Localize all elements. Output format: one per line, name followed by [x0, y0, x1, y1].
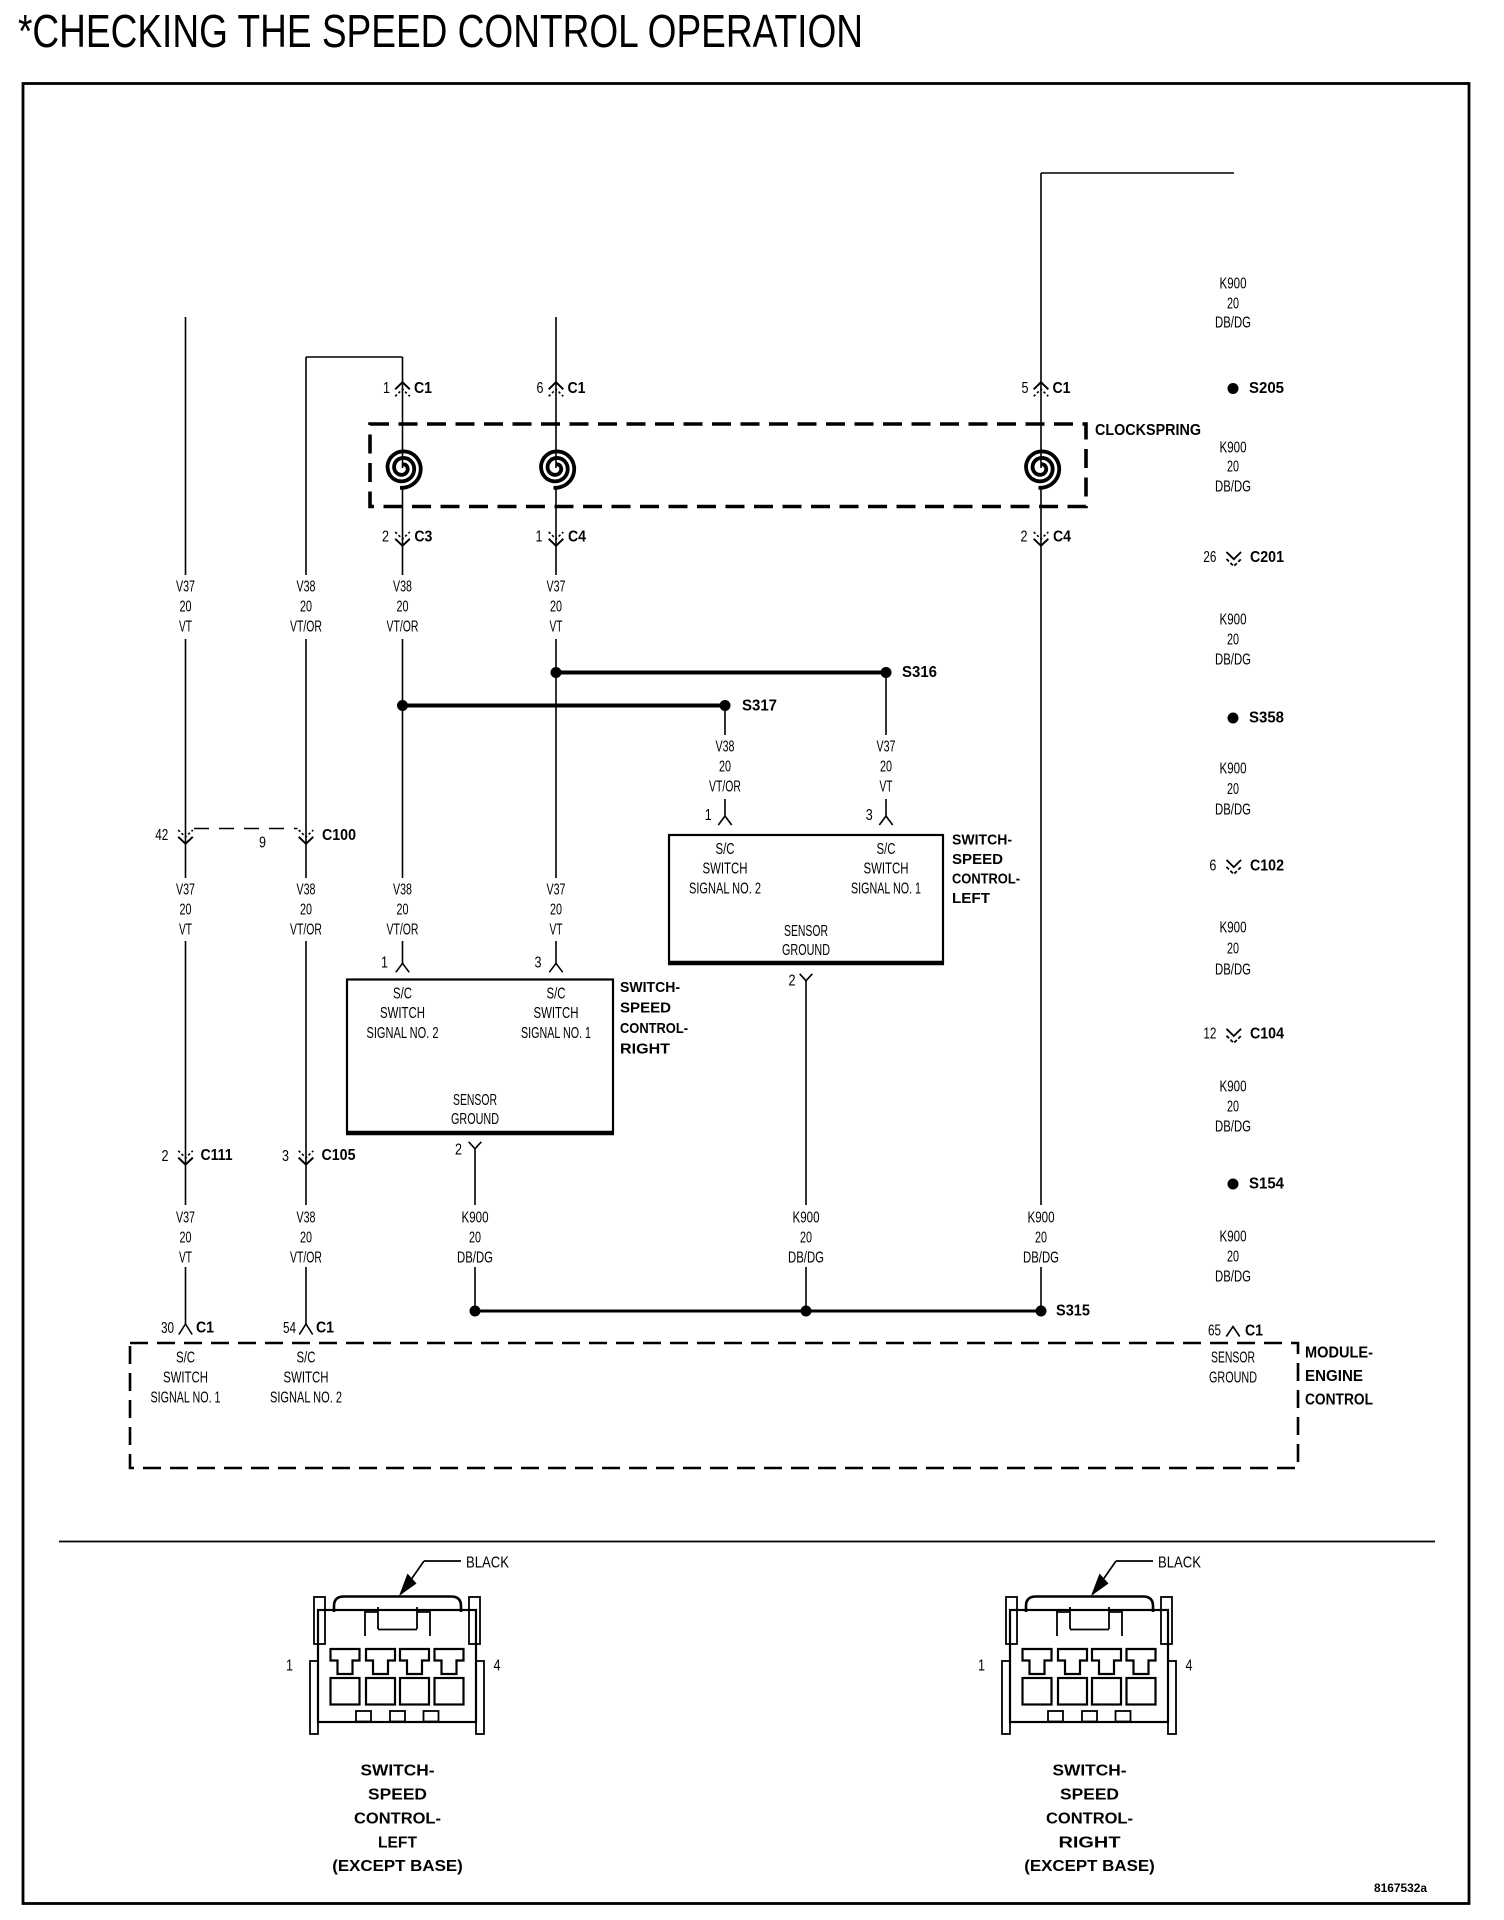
connector C100 pin 42 (x=185.5)	[178, 830, 193, 837]
svg-text:20: 20	[1227, 781, 1239, 798]
svg-text:DB/DG: DB/DG	[1215, 315, 1251, 332]
svg-text:BLACK: BLACK	[466, 1555, 509, 1572]
svg-text:SWITCH: SWITCH	[284, 1370, 329, 1387]
svg-text:BLACK: BLACK	[1158, 1555, 1201, 1572]
svg-text:C104: C104	[1250, 1026, 1284, 1043]
svg-text:4: 4	[1186, 1658, 1193, 1675]
switch right pin 1	[396, 963, 409, 972]
svg-text:CONTROL-: CONTROL-	[1046, 1811, 1133, 1828]
svg-text:DB/DG: DB/DG	[457, 1250, 493, 1267]
svg-text:6: 6	[537, 380, 544, 397]
svg-text:30: 30	[161, 1320, 174, 1337]
svg-text:12: 12	[1203, 1026, 1216, 1043]
svg-text:SWITCH: SWITCH	[703, 861, 748, 878]
svg-text:C105: C105	[322, 1147, 356, 1164]
svg-text:5: 5	[1022, 380, 1029, 397]
svg-text:VT/OR: VT/OR	[387, 922, 419, 939]
svg-text:VT: VT	[550, 922, 563, 939]
svg-text:C1: C1	[1245, 1323, 1263, 1340]
switch speed control left box	[669, 835, 943, 963]
svg-text:VT/OR: VT/OR	[290, 922, 322, 939]
clockspring coil 1	[388, 451, 421, 487]
svg-text:20: 20	[1227, 941, 1239, 958]
svg-text:GROUND: GROUND	[782, 942, 830, 959]
svg-text:K900: K900	[793, 1210, 820, 1227]
svg-text:SWITCH: SWITCH	[380, 1005, 425, 1022]
svg-text:20: 20	[300, 599, 312, 616]
clockspring dashed box	[370, 424, 1086, 507]
svg-text:20: 20	[1035, 1230, 1047, 1247]
svg-text:SPEED: SPEED	[620, 1000, 671, 1017]
svg-text:ENGINE: ENGINE	[1305, 1368, 1363, 1385]
svg-text:RIGHT: RIGHT	[620, 1041, 670, 1058]
wire W1 V37 20 VT (x=185.5)	[185, 317, 187, 575]
svg-text:K900: K900	[1220, 920, 1247, 937]
svg-text:C102: C102	[1250, 858, 1284, 875]
wire ground branch from switch right pin 2 (x=475)	[474, 1149, 476, 1205]
svg-text:CONTROL-: CONTROL-	[354, 1811, 441, 1828]
dashed link between C100 halves	[194, 828, 298, 830]
svg-text:20: 20	[1227, 296, 1239, 313]
svg-text:VT/OR: VT/OR	[387, 619, 419, 636]
connector C1 pin 5 (clockspring top, x=1041)	[1034, 382, 1049, 389]
module pin 30 C1	[179, 1324, 192, 1335]
svg-text:K900: K900	[1220, 1079, 1247, 1096]
svg-text:DB/DG: DB/DG	[788, 1250, 824, 1267]
splice S315	[475, 1310, 1041, 1313]
wire branch from splice S317 to switch left pin 1 (x=725)	[724, 706, 726, 736]
svg-text:VT: VT	[179, 619, 192, 636]
wire W5 K900 20 DB/DG (x=1041) sensor ground through clockspring	[1041, 172, 1234, 174]
svg-text:SWITCH: SWITCH	[163, 1370, 208, 1387]
svg-text:S/C: S/C	[393, 986, 412, 1003]
svg-text:42: 42	[155, 827, 168, 844]
svg-text:K900: K900	[1028, 1210, 1055, 1227]
connector C3 pin 2 (below clockspring, x=402.5)	[395, 532, 410, 539]
svg-text:S205: S205	[1249, 380, 1284, 397]
svg-text:DB/DG: DB/DG	[1215, 1119, 1251, 1136]
svg-text:S/C: S/C	[877, 841, 896, 858]
svg-text:SWITCH: SWITCH	[864, 861, 909, 878]
module pin 54 C1	[299, 1324, 312, 1335]
svg-text:VT: VT	[179, 1250, 192, 1267]
svg-text:S358: S358	[1249, 710, 1284, 727]
svg-text:(EXCEPT BASE): (EXCEPT BASE)	[332, 1858, 463, 1875]
wire W3 V38 20 VT/OR (x=402.5) from C1 pin1 through clockspring to switch right pin 1	[402, 357, 404, 468]
switch right pin 3	[549, 963, 562, 972]
svg-text:20: 20	[550, 902, 562, 919]
svg-text:DB/DG: DB/DG	[1215, 479, 1251, 496]
svg-text:S317: S317	[742, 698, 777, 715]
svg-text:V37: V37	[176, 882, 195, 899]
svg-text:K900: K900	[1220, 276, 1247, 293]
wire branch from splice S316 to switch left pin 3 (x=886)	[885, 673, 887, 736]
svg-text:1: 1	[383, 380, 390, 397]
switch speed control left connector view (black)	[310, 1561, 484, 1734]
svg-text:VT: VT	[880, 779, 893, 796]
svg-text:V38: V38	[297, 579, 316, 596]
svg-text:SENSOR: SENSOR	[453, 1092, 497, 1109]
svg-text:V37: V37	[547, 882, 566, 899]
svg-text:V38: V38	[393, 882, 412, 899]
svg-text:20: 20	[1227, 459, 1239, 476]
svg-text:1: 1	[705, 807, 712, 824]
svg-text:K900: K900	[1220, 440, 1247, 457]
svg-text:20: 20	[397, 599, 409, 616]
svg-text:20: 20	[300, 902, 312, 919]
svg-text:RIGHT: RIGHT	[1059, 1835, 1121, 1852]
svg-text:VT/OR: VT/OR	[709, 779, 741, 796]
svg-text:6: 6	[1209, 858, 1216, 875]
connector C111 pin 2 (x=185.5)	[178, 1151, 193, 1158]
svg-text:SIGNAL NO. 1: SIGNAL NO. 1	[151, 1390, 221, 1407]
svg-text:20: 20	[1227, 1249, 1239, 1266]
svg-text:1: 1	[978, 1658, 985, 1675]
connector C1 pin 1 (clockspring top, x=402.5)	[395, 382, 410, 389]
connector C4 pin 1 (below clockspring, x=556)	[549, 532, 564, 539]
separator line between schematic and connector views	[59, 1541, 1435, 1543]
svg-text:C1: C1	[568, 380, 586, 397]
clockspring coil 3	[1026, 451, 1059, 487]
svg-text:S/C: S/C	[176, 1350, 195, 1367]
svg-text:C4: C4	[568, 529, 586, 546]
svg-text:VT/OR: VT/OR	[290, 619, 322, 636]
svg-text:20: 20	[180, 599, 192, 616]
svg-text:C1: C1	[1053, 380, 1071, 397]
connector C4 pin 2 (below clockspring, x=1041)	[1034, 532, 1049, 539]
switch left pin 1	[718, 816, 731, 825]
svg-text:20: 20	[180, 1230, 192, 1247]
svg-text:V38: V38	[297, 1210, 316, 1227]
svg-text:2: 2	[1021, 529, 1028, 546]
svg-text:20: 20	[1227, 1099, 1239, 1116]
svg-text:CONTROL-: CONTROL-	[620, 1020, 688, 1037]
svg-text:8167532a: 8167532a	[1374, 1881, 1427, 1895]
svg-text:S/C: S/C	[297, 1350, 316, 1367]
wire W2 V38 20 VT/OR (x=306) with top jog to C1 pin 1	[306, 356, 403, 358]
svg-text:SIGNAL NO. 2: SIGNAL NO. 2	[367, 1025, 439, 1042]
module pin 65 C1	[1226, 1327, 1239, 1337]
svg-text:C201: C201	[1250, 549, 1284, 566]
svg-text:C1: C1	[414, 380, 432, 397]
svg-text:S316: S316	[902, 664, 937, 681]
svg-text:C1: C1	[316, 1320, 334, 1337]
svg-text:54: 54	[283, 1320, 296, 1337]
svg-text:SIGNAL NO. 1: SIGNAL NO. 1	[521, 1025, 591, 1042]
connector C105 pin 3 (x=306)	[299, 1151, 314, 1158]
svg-text:GROUND: GROUND	[1209, 1370, 1257, 1387]
svg-text:V37: V37	[176, 579, 195, 596]
svg-text:GROUND: GROUND	[451, 1111, 499, 1128]
svg-text:20: 20	[800, 1230, 812, 1247]
connector C104 pin 12	[1227, 1029, 1242, 1036]
svg-text:VT: VT	[550, 619, 563, 636]
svg-text:VT: VT	[179, 922, 192, 939]
svg-text:V37: V37	[877, 739, 896, 756]
splice S316	[556, 671, 886, 675]
svg-text:1: 1	[286, 1658, 293, 1675]
svg-text:DB/DG: DB/DG	[1215, 802, 1251, 819]
svg-text:20: 20	[397, 902, 409, 919]
connector C1 pin 6 (clockspring top, x=556)	[549, 382, 564, 389]
svg-text:SIGNAL NO. 2: SIGNAL NO. 2	[689, 881, 761, 898]
svg-text:LEFT: LEFT	[952, 890, 990, 907]
svg-text:C4: C4	[1053, 529, 1071, 546]
svg-text:DB/DG: DB/DG	[1215, 1269, 1251, 1286]
svg-text:20: 20	[469, 1230, 481, 1247]
clockspring coil 2	[541, 451, 574, 487]
svg-text:V37: V37	[547, 579, 566, 596]
svg-text:1: 1	[381, 955, 388, 972]
module engine control dashed box	[130, 1343, 1298, 1468]
svg-text:V38: V38	[297, 882, 316, 899]
svg-text:20: 20	[1227, 632, 1239, 649]
svg-text:SWITCH-: SWITCH-	[952, 832, 1012, 849]
svg-text:2: 2	[162, 1148, 169, 1165]
svg-text:20: 20	[550, 599, 562, 616]
svg-text:S/C: S/C	[547, 986, 566, 1003]
svg-text:26: 26	[1203, 549, 1216, 566]
svg-text:CONTROL-: CONTROL-	[952, 871, 1020, 888]
svg-text:CLOCKSPRING: CLOCKSPRING	[1095, 422, 1201, 439]
svg-text:20: 20	[300, 1230, 312, 1247]
svg-text:9: 9	[259, 835, 266, 852]
switch right pin 2 (sensor ground)	[469, 1142, 482, 1149]
connector C201 pin 26	[1227, 552, 1242, 559]
svg-text:SENSOR: SENSOR	[784, 923, 828, 940]
svg-text:SIGNAL NO. 1: SIGNAL NO. 1	[851, 881, 921, 898]
splice S205	[1228, 383, 1239, 394]
svg-text:C100: C100	[322, 827, 356, 844]
wire W4 V37 20 VT (x=556) through clockspring to switch right pin 3	[555, 317, 557, 468]
svg-text:V37: V37	[176, 1210, 195, 1227]
switch speed control right connector view (black)	[1002, 1561, 1176, 1734]
switch left pin 3	[879, 816, 892, 825]
splice S358	[1228, 713, 1239, 724]
svg-text:LEFT: LEFT	[378, 1835, 417, 1852]
svg-text:K900: K900	[1220, 761, 1247, 778]
svg-text:4: 4	[494, 1658, 501, 1675]
svg-text:K900: K900	[462, 1210, 489, 1227]
splice S317	[403, 704, 726, 708]
svg-text:SPEED: SPEED	[952, 851, 1003, 868]
svg-text:*CHECKING THE SPEED CONTROL OP: *CHECKING THE SPEED CONTROL OPERATION	[18, 5, 863, 57]
svg-text:S154: S154	[1249, 1176, 1284, 1193]
svg-text:C111: C111	[201, 1147, 233, 1164]
svg-text:3: 3	[866, 807, 873, 824]
svg-text:(EXCEPT BASE): (EXCEPT BASE)	[1024, 1858, 1155, 1875]
svg-text:20: 20	[880, 759, 892, 776]
splice S154	[1228, 1179, 1239, 1190]
svg-text:1: 1	[536, 529, 543, 546]
connector C102 pin 6	[1227, 860, 1242, 867]
svg-text:S315: S315	[1056, 1303, 1090, 1320]
svg-text:V38: V38	[393, 579, 412, 596]
svg-text:DB/DG: DB/DG	[1023, 1250, 1059, 1267]
connector C100 pin 9 (x=306)	[299, 830, 314, 837]
svg-text:SWITCH-: SWITCH-	[620, 979, 680, 996]
switch left pin 2 (sensor ground)	[800, 974, 813, 981]
svg-text:SIGNAL NO. 2: SIGNAL NO. 2	[270, 1390, 342, 1407]
wire ground branch from switch left pin 2 (x=806)	[805, 981, 807, 1205]
svg-text:SWITCH-: SWITCH-	[1053, 1763, 1127, 1780]
svg-text:VT/OR: VT/OR	[290, 1250, 322, 1267]
svg-text:CONTROL: CONTROL	[1305, 1392, 1373, 1409]
svg-text:SPEED: SPEED	[368, 1787, 427, 1804]
svg-text:K900: K900	[1220, 1229, 1247, 1246]
svg-text:SENSOR: SENSOR	[1211, 1350, 1255, 1367]
switch speed control right box	[347, 980, 613, 1134]
svg-text:K900: K900	[1220, 612, 1247, 629]
svg-text:2: 2	[382, 529, 389, 546]
svg-text:SWITCH: SWITCH	[534, 1005, 579, 1022]
svg-text:2: 2	[455, 1142, 462, 1159]
svg-text:20: 20	[719, 759, 731, 776]
svg-text:65: 65	[1208, 1323, 1221, 1340]
svg-text:C1: C1	[196, 1320, 214, 1337]
svg-text:SPEED: SPEED	[1060, 1787, 1119, 1804]
svg-text:V38: V38	[716, 739, 735, 756]
svg-text:3: 3	[535, 955, 542, 972]
svg-text:3: 3	[282, 1148, 289, 1165]
svg-text:2: 2	[789, 973, 796, 990]
svg-text:SWITCH-: SWITCH-	[361, 1763, 435, 1780]
svg-text:MODULE-: MODULE-	[1305, 1345, 1373, 1362]
svg-text:DB/DG: DB/DG	[1215, 652, 1251, 669]
svg-text:C3: C3	[414, 529, 432, 546]
svg-text:DB/DG: DB/DG	[1215, 962, 1251, 979]
svg-text:S/C: S/C	[716, 841, 735, 858]
svg-text:20: 20	[180, 902, 192, 919]
